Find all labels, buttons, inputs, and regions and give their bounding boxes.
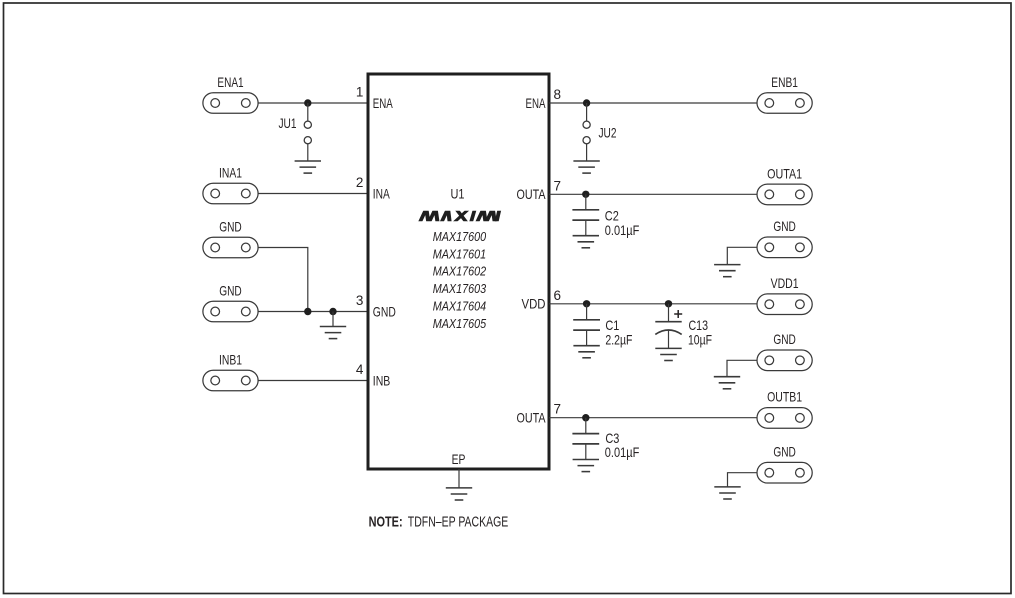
- junction node OUTA/C3: [582, 414, 589, 421]
- svg-text:ENA: ENA: [373, 95, 393, 111]
- svg-text:0.01µF: 0.01µF: [605, 222, 640, 238]
- ground (C1): [573, 346, 599, 358]
- svg-text:GND: GND: [219, 283, 242, 299]
- svg-text:OUTA: OUTA: [517, 186, 547, 202]
- svg-text:ENA1: ENA1: [217, 74, 243, 90]
- pad OUTB1: [757, 408, 812, 429]
- svg-text:2.2µF: 2.2µF: [605, 331, 632, 347]
- svg-text:VDD1: VDD1: [771, 275, 799, 291]
- ground (GND pad A): [714, 265, 740, 277]
- svg-text:GND: GND: [373, 303, 396, 319]
- ground (JU2): [573, 161, 599, 173]
- pad GND (right middle): [757, 350, 812, 371]
- wire pin 8 ENA to ENB1: [549, 102, 757, 104]
- junction node JU2/ENA: [583, 99, 590, 106]
- wire GND pad to pin 3 GND: [258, 311, 366, 313]
- pad GND (right upper): [757, 237, 812, 258]
- svg-text:GND: GND: [219, 219, 242, 235]
- junction node GND/ground: [329, 308, 336, 315]
- ground (GND pad B): [714, 487, 740, 499]
- svg-text:6: 6: [554, 288, 562, 303]
- svg-text:OUTB1: OUTB1: [767, 388, 802, 404]
- wire INB1 to pin 4 INB: [258, 380, 366, 382]
- svg-text:ENA: ENA: [526, 95, 546, 111]
- pad GND (right lower): [757, 462, 812, 483]
- pad ENB1: [757, 93, 812, 114]
- svg-text:10µF: 10µF: [688, 331, 712, 347]
- svg-text:INA: INA: [373, 185, 390, 201]
- svg-text:ENB1: ENB1: [771, 74, 798, 90]
- svg-text:MAX17601: MAX17601: [433, 246, 487, 261]
- pad GND (left lower): [203, 301, 258, 322]
- svg-text:MAX17600: MAX17600: [433, 229, 487, 244]
- svg-text:INB1: INB1: [219, 352, 242, 368]
- svg-text:U1: U1: [451, 186, 465, 202]
- wire to ground: [332, 312, 334, 327]
- pad INB1: [203, 370, 258, 391]
- ground (C3): [573, 460, 599, 472]
- pad INA1: [203, 183, 258, 204]
- svg-text:JU1: JU1: [279, 115, 297, 131]
- wire GND pad to ground: [727, 360, 757, 376]
- ground (C2): [573, 236, 599, 248]
- svg-text:7: 7: [554, 402, 562, 417]
- capacitor C1: [573, 304, 600, 346]
- svg-text:3: 3: [356, 293, 364, 308]
- svg-text:MAX17603: MAX17603: [433, 281, 487, 296]
- IC U1 MAX17600-MAX17605: [368, 74, 549, 469]
- wire GND pad to ground: [727, 247, 757, 264]
- wire GND pad to ground: [728, 473, 758, 487]
- svg-text:MAX17604: MAX17604: [433, 298, 487, 313]
- ground (JU1): [295, 161, 321, 173]
- ground (EP): [446, 488, 472, 500]
- svg-text:2: 2: [356, 175, 364, 190]
- wire EP to ground: [458, 469, 460, 488]
- ground (C13): [655, 348, 681, 360]
- svg-text:MAX17602: MAX17602: [433, 264, 487, 279]
- wire pin 7 OUTA to OUTA1: [549, 193, 757, 195]
- svg-text:GND: GND: [773, 331, 796, 347]
- jumper JU2: [583, 103, 590, 161]
- svg-text:INA1: INA1: [219, 165, 242, 181]
- svg-text:4: 4: [356, 362, 364, 377]
- svg-text:OUTA: OUTA: [517, 410, 547, 426]
- svg-text:JU2: JU2: [599, 125, 617, 141]
- svg-text:0.01µF: 0.01µF: [605, 444, 640, 460]
- svg-text:INB: INB: [373, 372, 391, 388]
- wire pin 6 VDD to VDD1: [549, 303, 757, 305]
- svg-text:EP: EP: [452, 451, 466, 467]
- svg-text:7: 7: [554, 178, 562, 193]
- svg-text:1: 1: [356, 85, 364, 100]
- pad GND (left upper): [203, 237, 258, 258]
- junction node GND/GND: [304, 308, 311, 315]
- svg-text:NOTE:TDFN–EP PACKAGE: NOTE:TDFN–EP PACKAGE: [369, 514, 509, 531]
- wire ENA1 to pin 1 ENA: [258, 102, 366, 104]
- capacitor C2: [572, 194, 599, 235]
- capacitor C3: [572, 418, 599, 460]
- jumper JU1: [304, 103, 311, 161]
- svg-text:GND: GND: [773, 443, 796, 459]
- pad OUTA1: [757, 184, 812, 205]
- junction node JU1/ENA: [304, 99, 311, 106]
- wire INA1 to pin 2 INA: [258, 193, 366, 195]
- wire pin 7 OUTA to OUTB1: [549, 417, 757, 419]
- junction node VDD/C13: [665, 300, 672, 307]
- junction node OUTA/C2: [582, 191, 589, 198]
- svg-text:GND: GND: [773, 218, 796, 234]
- polarity + (C13): [674, 310, 682, 318]
- svg-text:8: 8: [554, 87, 562, 102]
- svg-text:MAX17605: MAX17605: [433, 316, 487, 331]
- wire GND pad to GND net: [258, 248, 308, 312]
- svg-text:OUTA1: OUTA1: [767, 165, 802, 181]
- ground (pin 3): [320, 327, 346, 339]
- junction node VDD/C1: [583, 300, 590, 307]
- pad ENA1: [203, 93, 258, 114]
- ground (GND pad mid): [714, 377, 740, 389]
- capacitor C13 (polarized): [655, 304, 681, 349]
- svg-text:VDD: VDD: [522, 296, 546, 312]
- pad VDD1: [757, 294, 812, 315]
